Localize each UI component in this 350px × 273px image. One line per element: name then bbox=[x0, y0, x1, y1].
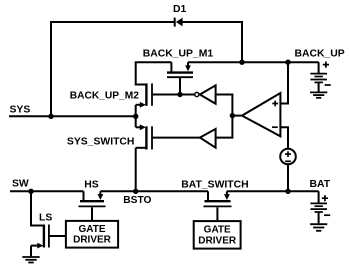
node comparator output junction bbox=[230, 113, 235, 118]
wire comparator plus input drop bbox=[280, 62, 288, 103]
svg-text:GATE: GATE bbox=[78, 224, 105, 235]
svg-text:DRIVER: DRIVER bbox=[73, 235, 112, 246]
wire SYS_SWITCH drain to BSTO node bbox=[135, 148, 137, 192]
wire inverter bus vertical bbox=[216, 95, 233, 138]
wire current source to BAT node bbox=[287, 164, 289, 191]
node BSTO junction bbox=[133, 189, 138, 194]
transistor BAT_SWITCH bbox=[204, 191, 232, 221]
diode D1 bbox=[175, 18, 183, 27]
ground BACK_UP battery bbox=[310, 92, 327, 97]
svg-text:GATE: GATE bbox=[204, 224, 231, 235]
wire comparator minus input to current source bbox=[280, 127, 288, 149]
svg-text:BACK_UP: BACK_UP bbox=[295, 49, 345, 60]
transistor LS bbox=[31, 225, 66, 257]
wire M1 gate lead bbox=[179, 78, 181, 95]
svg-text:BACK_UP_M2: BACK_UP_M2 bbox=[70, 90, 139, 101]
battery BAT bbox=[310, 191, 330, 223]
transistor HS bbox=[79, 191, 106, 221]
gate driver box BAT_SWITCH bbox=[194, 221, 241, 249]
svg-text:BAT: BAT bbox=[310, 179, 331, 190]
op-amp comparator bbox=[242, 93, 280, 136]
wire comparator output to inverter bus bbox=[232, 115, 242, 117]
svg-text:D1: D1 bbox=[173, 4, 187, 15]
wire inverter2 output to SYS_SWITCH gate bbox=[152, 137, 200, 139]
svg-text:BACK_UP_M1: BACK_UP_M1 bbox=[143, 49, 214, 60]
transistor BACK_UP_M2 bbox=[136, 83, 152, 107]
gate driver box HS/LS bbox=[66, 221, 118, 248]
wire top D1 net from SYS riser to diode bbox=[51, 22, 175, 116]
wire BAT segment bbox=[227, 190, 319, 192]
node SW junction bbox=[28, 189, 33, 194]
wire BSTO segment bbox=[100, 190, 208, 192]
svg-text:SW: SW bbox=[12, 179, 29, 190]
svg-text:SYS: SYS bbox=[10, 105, 31, 116]
wire BACK_UP rail right segment bbox=[188, 61, 319, 63]
wire SYS node to SYS_SWITCH source bbox=[135, 116, 137, 127]
node BAT current source junction bbox=[285, 189, 290, 194]
wire SYS horizontal bbox=[9, 115, 136, 117]
battery BACK_UP bbox=[310, 62, 330, 92]
svg-text:HS: HS bbox=[84, 180, 99, 191]
svg-text:SYS_SWITCH: SYS_SWITCH bbox=[67, 137, 135, 148]
buffer A2 bbox=[200, 129, 216, 148]
wire inverter1 output to M2 gate bbox=[152, 94, 195, 96]
ground BAT battery bbox=[310, 224, 327, 231]
node SYS riser junction bbox=[48, 114, 53, 119]
node rail comparator junction bbox=[285, 60, 290, 65]
wire diode cathode to BACK_UP riser bbox=[183, 22, 243, 62]
svg-text:DRIVER: DRIVER bbox=[198, 236, 237, 247]
svg-text:LS: LS bbox=[39, 213, 52, 224]
wire LS drain riser bbox=[31, 191, 44, 225]
wire M2 source to SYS node bbox=[135, 105, 137, 117]
node SYS transistor junction bbox=[133, 114, 138, 119]
svg-text:BSTO: BSTO bbox=[123, 195, 151, 206]
transistor SYS_SWITCH bbox=[136, 124, 152, 149]
transistor BACK_UP_M1 bbox=[167, 62, 193, 77]
wire SW segment bbox=[10, 190, 84, 192]
ground LS bbox=[22, 257, 39, 263]
node gate wire junction bbox=[177, 92, 182, 97]
wire M2 drain to rail left segment bbox=[136, 62, 172, 84]
inverter A1 bbox=[195, 85, 216, 103]
node rail D1 junction bbox=[239, 60, 244, 65]
current source bbox=[280, 149, 296, 165]
svg-text:BAT_SWITCH: BAT_SWITCH bbox=[181, 179, 248, 190]
